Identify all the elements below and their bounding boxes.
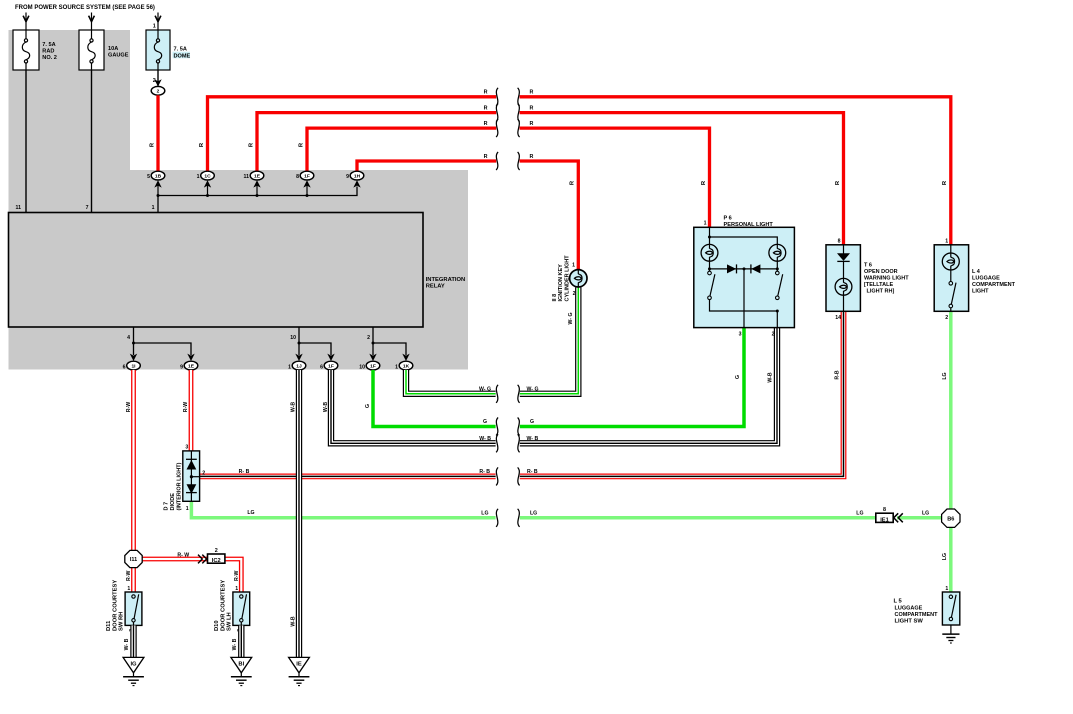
svg-text:1: 1 — [395, 364, 398, 370]
red wire R: connector 1E up and right to break (row 2) — [257, 113, 496, 172]
connector IC2 — [198, 548, 225, 564]
svg-text:WARNING LIGHT: WARNING LIGHT — [864, 276, 909, 282]
svg-text:R-W: R-W — [234, 571, 240, 581]
svg-text:R- W: R- W — [177, 552, 189, 558]
T6 diode — [837, 253, 850, 261]
svg-text:1C: 1C — [204, 174, 211, 180]
wire R-W: junction I11 down to door courtesy switch D11 — [131, 568, 136, 592]
svg-text:T 6: T 6 — [864, 263, 872, 269]
svg-text:COMPARTMENT: COMPARTMENT — [972, 282, 1016, 288]
P6 lamp left — [701, 244, 718, 261]
D7 upper diode — [186, 458, 197, 460]
node 2 (dome feed connector) — [151, 86, 165, 95]
svg-text:R: R — [484, 121, 488, 127]
connector 1B — [147, 171, 165, 180]
connector 1E (pin 9) — [180, 361, 198, 370]
svg-text:2: 2 — [945, 315, 948, 321]
svg-text:R: R — [530, 90, 534, 96]
svg-text:NO. 2: NO. 2 — [42, 55, 57, 61]
red wire R: connector 1H up and right to break (row 4) — [357, 161, 496, 171]
wire R-W: connector 1E down to diode D7 pin 3 — [189, 370, 194, 451]
ground IG — [123, 657, 144, 685]
svg-text:R: R — [484, 105, 488, 111]
svg-text:IE1: IE1 — [880, 518, 889, 524]
wire R-W: connector 1I down to junction I11 — [131, 370, 136, 550]
wire W-G: break to ignition key cylinder light II8 pin 2 — [520, 287, 579, 394]
connector 1H — [346, 171, 364, 180]
svg-text:L 5: L 5 — [894, 599, 903, 605]
bus stubs — [207, 185, 209, 196]
svg-text:G: G — [365, 404, 371, 408]
svg-text:R- B: R- B — [479, 469, 490, 475]
svg-text:LG: LG — [856, 511, 863, 517]
svg-text:IE: IE — [296, 661, 302, 667]
svg-text:1F: 1F — [304, 174, 310, 180]
red wire R: row 1 resume to luggage compartment light L4 — [520, 97, 951, 245]
P6 internal wiring — [710, 227, 778, 327]
svg-text:W- B: W- B — [527, 436, 539, 442]
P6 diode right — [751, 264, 760, 273]
P6 lamp right — [769, 244, 786, 261]
wire R-W: connector IC2 to door courtesy switch D10 — [225, 559, 241, 592]
svg-text:RELAY: RELAY — [426, 284, 445, 290]
svg-text:FROM POWER SOURCE SYSTEM (SEE: FROM POWER SOURCE SYSTEM (SEE PAGE 56) — [15, 5, 155, 11]
svg-text:11: 11 — [16, 205, 22, 211]
svg-text:11: 11 — [244, 174, 250, 180]
svg-text:LG: LG — [530, 511, 537, 517]
svg-text:8: 8 — [838, 238, 841, 244]
svg-text:[TELLTALE: [TELLTALE — [864, 282, 893, 288]
door courtesy switch D10 — [214, 580, 250, 631]
svg-text:LUGGAGE: LUGGAGE — [895, 605, 923, 611]
svg-text:INTEGRATION: INTEGRATION — [426, 277, 466, 283]
svg-text:LIGHT: LIGHT — [972, 288, 989, 294]
power feed arrow into fuse RAD — [23, 13, 29, 31]
wire G: connector 1F down and right to break — [373, 370, 496, 427]
personal light P6 — [694, 215, 795, 337]
svg-text:1: 1 — [197, 174, 200, 180]
svg-text:2: 2 — [772, 331, 775, 337]
ignition key cylinder light II8 — [552, 255, 587, 302]
bus junction dots — [157, 194, 160, 197]
red wire R: row 3 resume to personal light P6 pin 1 — [520, 128, 710, 227]
P6 switch right — [776, 271, 780, 275]
ground BI — [231, 657, 252, 685]
svg-text:W- G: W- G — [568, 313, 574, 325]
door courtesy switch D11 — [106, 580, 142, 631]
svg-text:R-B: R-B — [834, 370, 840, 379]
svg-text:W- G: W- G — [527, 386, 539, 392]
svg-text:1I: 1I — [131, 364, 136, 370]
svg-text:I11: I11 — [130, 557, 137, 563]
svg-text:1: 1 — [186, 506, 189, 512]
wire LG: junction B6 down to luggage compartment light switch L5 — [949, 527, 953, 592]
fuse F1 7.5A RAD NO.2 — [13, 30, 57, 70]
svg-text:2: 2 — [202, 471, 205, 477]
junction connector B6 — [942, 509, 960, 527]
svg-text:1: 1 — [704, 221, 707, 227]
svg-text:2: 2 — [367, 335, 370, 341]
svg-text:IC2: IC2 — [212, 558, 221, 564]
svg-text:1: 1 — [152, 205, 155, 211]
wire from fuse DOME to connector 2 — [157, 70, 159, 86]
luggage compartment light L4 — [934, 238, 1015, 321]
svg-text:G: G — [483, 419, 487, 425]
svg-text:5: 5 — [147, 174, 150, 180]
connector 1J — [288, 361, 306, 370]
svg-text:1F: 1F — [328, 364, 334, 370]
svg-text:6: 6 — [320, 364, 323, 370]
svg-text:1J: 1J — [296, 364, 302, 370]
svg-text:1K: 1K — [403, 364, 410, 370]
svg-text:G: G — [530, 419, 534, 425]
svg-text:6: 6 — [123, 364, 126, 370]
power feed arrow into fuse GAUGE — [89, 13, 95, 31]
wire LG: break to connector IE1 — [520, 516, 876, 520]
svg-text:1: 1 — [153, 24, 156, 30]
gray power-source block (left column) — [9, 30, 131, 170]
svg-text:1H: 1H — [354, 174, 361, 180]
integration relay box — [9, 213, 424, 328]
connector arrow into node 2 — [154, 79, 161, 86]
svg-text:7. 5A: 7. 5A — [174, 46, 187, 52]
wire W-B: D11 to ground IG — [130, 625, 136, 657]
svg-text:1: 1 — [235, 586, 238, 592]
wire LG: connector IE1 to junction B6 — [897, 516, 942, 520]
open door warning light T6 — [826, 238, 909, 321]
luggage compartment light switch L5 — [894, 586, 960, 625]
svg-text:8: 8 — [296, 174, 299, 180]
D7 node pin 2 — [190, 475, 193, 478]
red wire R: row 4 resume to ignition key cylinder light II8 — [520, 161, 579, 270]
red wire R: connector 1F up and right to break (row 3) — [307, 128, 496, 171]
svg-text:LG: LG — [247, 510, 254, 516]
svg-text:W-B: W-B — [290, 616, 296, 627]
svg-text:R-W: R-W — [126, 571, 132, 581]
svg-text:R: R — [530, 105, 534, 111]
svg-text:W-B: W-B — [323, 402, 329, 413]
svg-text:R- B: R- B — [239, 469, 250, 475]
svg-text:RAD: RAD — [42, 49, 54, 55]
svg-text:1F: 1F — [370, 364, 376, 370]
svg-text:LIGHT RH]: LIGHT RH] — [867, 289, 895, 295]
svg-text:R: R — [530, 154, 534, 160]
connector 1F (pin 6) — [320, 361, 338, 370]
connector 1K — [395, 361, 413, 370]
wire R-W: junction I11 right to connector IC2 — [142, 557, 207, 562]
wire LG: diode D7 pin 1 down and right to break — [191, 501, 495, 518]
svg-text:R: R — [530, 121, 534, 127]
svg-text:BI: BI — [238, 661, 244, 667]
svg-text:3: 3 — [185, 445, 188, 451]
wire from fuse RAD to relay pin 11 — [25, 70, 27, 213]
fuse F2 10A GAUGE — [79, 30, 129, 70]
svg-text:1E: 1E — [188, 364, 195, 370]
svg-text:B6: B6 — [947, 516, 954, 522]
connector 1F (pin 10) — [359, 361, 380, 370]
P6 diode left — [727, 264, 736, 273]
power feed arrow into fuse DOME — [155, 13, 161, 31]
svg-text:1: 1 — [127, 586, 130, 592]
break symbols bottom rows — [496, 385, 498, 403]
fuse F3 7.5A DOME — [146, 24, 191, 85]
svg-text:2: 2 — [573, 291, 576, 297]
svg-text:P 6: P 6 — [724, 215, 732, 221]
svg-text:R: R — [484, 154, 488, 160]
svg-text:LG: LG — [922, 511, 929, 517]
svg-text:LUGGAGE: LUGGAGE — [972, 275, 1000, 281]
svg-text:1: 1 — [572, 263, 575, 269]
junction connector I11 — [125, 550, 142, 567]
svg-text:9: 9 — [346, 174, 349, 180]
svg-text:L 4: L 4 — [972, 269, 981, 275]
relay pin 4 branch wire — [134, 327, 192, 355]
svg-text:1B: 1B — [155, 174, 162, 180]
wire W-B: connector 1J down to ground IE (drawn on top of crossing rows) — [296, 370, 302, 657]
svg-text:GAUGE: GAUGE — [108, 53, 129, 59]
D7 lower diode — [187, 484, 197, 494]
svg-text:LG: LG — [481, 511, 488, 517]
svg-text:W- B: W- B — [232, 638, 238, 650]
svg-text:LG: LG — [942, 372, 948, 379]
relay pin 2 branch wire — [373, 327, 406, 355]
svg-text:R- B: R- B — [527, 469, 538, 475]
connector 1F — [296, 171, 314, 180]
connector 1E — [244, 171, 264, 180]
svg-text:4: 4 — [127, 335, 130, 341]
wire G: break to personal light P6 pin 3 — [520, 328, 744, 427]
wire W-B: break to personal light P6 pin 2 — [520, 328, 777, 444]
svg-text:LIGHT SW: LIGHT SW — [895, 619, 924, 625]
svg-text:R-W: R-W — [183, 402, 189, 412]
break symbols top red rows — [496, 88, 498, 106]
T6 lamp — [835, 278, 852, 295]
svg-text:10A: 10A — [108, 46, 118, 52]
wire R-B: break to open door warning light T6 pin 14 — [520, 311, 844, 476]
connector 1C — [197, 171, 215, 180]
L4 switch — [949, 282, 953, 286]
svg-text:1: 1 — [945, 238, 948, 244]
red wire R: row 2 resume to open door warning light T6 — [520, 113, 844, 245]
svg-text:G: G — [735, 375, 741, 379]
svg-text:7: 7 — [86, 205, 89, 211]
ground IE — [289, 657, 310, 685]
connector IE1 — [876, 507, 903, 524]
P6 switch left — [708, 271, 712, 275]
ground below L5 — [942, 625, 959, 643]
svg-text:3: 3 — [739, 331, 742, 337]
svg-text:OPEN DOOR: OPEN DOOR — [864, 269, 898, 275]
branch junction dots — [132, 342, 135, 345]
svg-text:W- G: W- G — [479, 386, 491, 392]
svg-text:PERSONAL LIGHT: PERSONAL LIGHT — [724, 222, 774, 228]
wire W-G: connector 1K down and right to break — [406, 370, 496, 394]
svg-text:1: 1 — [945, 586, 948, 592]
svg-text:W- B: W- B — [479, 436, 491, 442]
svg-text:R-W: R-W — [126, 402, 132, 412]
svg-text:9: 9 — [180, 364, 183, 370]
svg-text:1: 1 — [288, 364, 291, 370]
svg-text:1E: 1E — [254, 174, 261, 180]
svg-text:14: 14 — [835, 315, 841, 321]
red wire R: dome node 2 to connector 1B — [156, 95, 159, 171]
svg-text:W- B: W- B — [124, 638, 130, 650]
svg-text:DOME: DOME — [174, 53, 191, 59]
red wire R: connector 1C up and right to break (row 1) — [208, 97, 497, 172]
svg-text:10: 10 — [290, 335, 296, 341]
relay pin 10 branch wire — [299, 327, 331, 355]
svg-text:IG: IG — [130, 661, 137, 667]
L4 lamp — [942, 253, 959, 270]
bus wire from connectors 1B-1H to relay pin 1 — [158, 187, 357, 213]
wire W-B: connector 1F down and right to break — [331, 370, 496, 443]
wire LG: luggage compartment light L4 pin 2 down to junction B6 — [949, 311, 953, 509]
svg-text:10: 10 — [359, 364, 365, 370]
svg-text:W-B: W-B — [290, 402, 296, 413]
svg-text:COMPARTMENT: COMPARTMENT — [895, 612, 939, 618]
svg-text:8: 8 — [883, 507, 886, 513]
wire from fuse GAUGE to relay pin 7 — [91, 70, 93, 213]
svg-text:R: R — [484, 90, 488, 96]
wire W-B: D10 to ground BI — [238, 625, 244, 657]
svg-text:7. 5A: 7. 5A — [42, 42, 55, 48]
arrows into bottom connector ovals — [130, 354, 137, 361]
svg-text:LG: LG — [942, 553, 948, 560]
wire R-B: diode D7 pin 2 right to break — [200, 473, 496, 479]
connector 1I — [123, 361, 141, 370]
svg-text:2: 2 — [215, 548, 218, 554]
svg-text:W-B: W-B — [767, 372, 773, 383]
gray relay block (wide band) — [9, 170, 469, 370]
diode (interior light) D7 — [164, 445, 206, 512]
svg-text:2: 2 — [157, 89, 160, 95]
top connector row: arrows into ovals — [154, 180, 161, 187]
